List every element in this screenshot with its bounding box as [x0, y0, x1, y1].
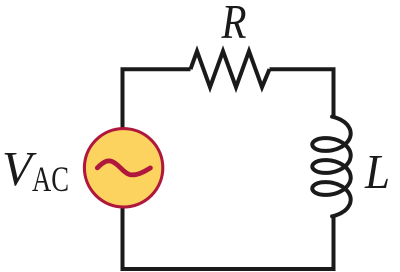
- wire: right vertical below inductor + bottom horizontal + left vertical up to source: [123, 207, 334, 269]
- resistor R1 zigzag: [191, 51, 270, 87]
- AC source V1 circle: [84, 129, 162, 207]
- inductor L1 coil: [312, 117, 350, 217]
- svg-text:L: L: [364, 144, 390, 199]
- svg-text:AC: AC: [32, 159, 69, 199]
- wire: top-right horizontal + right vertical down to inductor: [270, 69, 334, 118]
- AC source sine symbol: [97, 161, 150, 175]
- svg-text:R: R: [221, 0, 247, 49]
- wire: left vertical + top-left horizontal run to resistor: [123, 69, 191, 128]
